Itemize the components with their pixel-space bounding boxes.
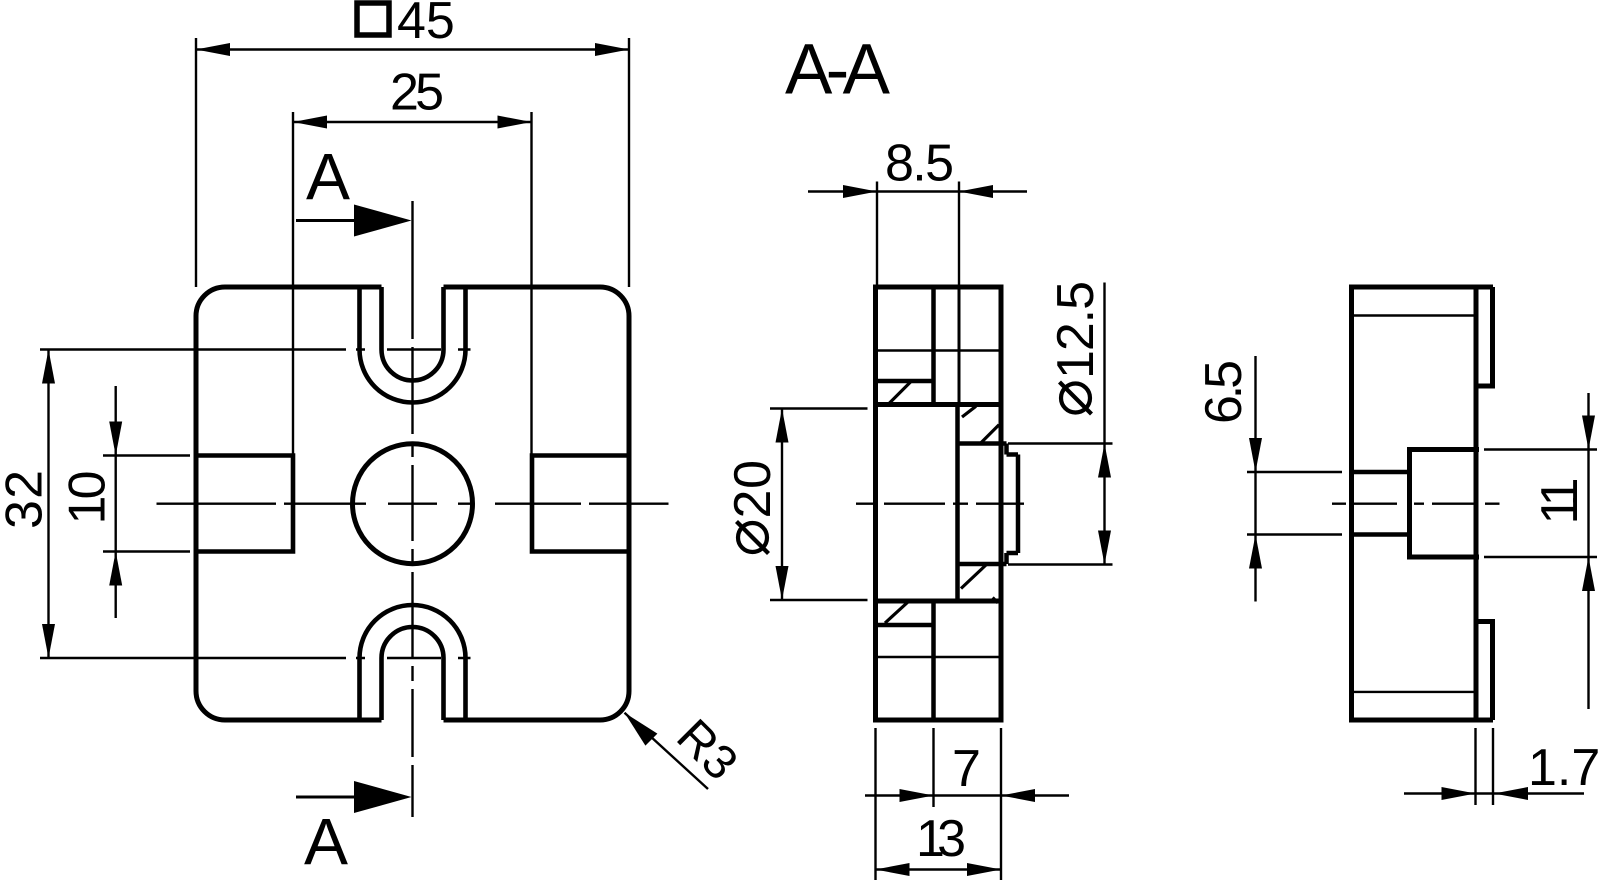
- svg-text:6.5: 6.5: [1195, 360, 1253, 424]
- svg-text:7: 7: [952, 740, 981, 798]
- svg-text:25: 25: [390, 64, 444, 122]
- svg-text:13: 13: [916, 810, 966, 868]
- svg-text:8.5: 8.5: [885, 135, 954, 193]
- svg-text:12.5: 12.5: [1047, 281, 1105, 379]
- svg-text:32: 32: [0, 470, 54, 529]
- svg-text:10: 10: [58, 471, 116, 525]
- svg-text:45: 45: [397, 0, 455, 50]
- svg-text:11: 11: [1531, 478, 1589, 525]
- svg-text:1.7: 1.7: [1528, 739, 1600, 797]
- svg-text:A-A: A-A: [785, 31, 891, 110]
- svg-text:20: 20: [724, 460, 782, 519]
- svg-text:A: A: [306, 140, 350, 214]
- svg-text:A: A: [304, 805, 348, 879]
